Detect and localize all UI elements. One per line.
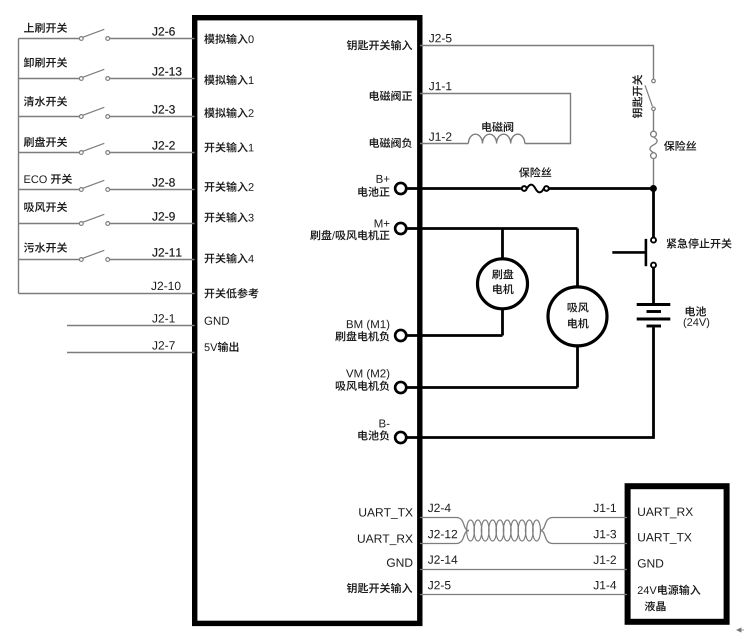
switch S2 blade — [83, 69, 105, 77]
pin label J1-4 (LCD) — [593, 581, 616, 589]
switch S4 wire right segment to J2-2 — [110, 152, 195, 154]
wire VM — [406, 386, 577, 389]
terminal B+ — [395, 183, 406, 194]
switch S5 blade — [83, 180, 105, 188]
wire J2-7 5V — [67, 352, 195, 354]
label 卸刷开关 — [24, 57, 67, 67]
junction node B+ column — [650, 185, 657, 192]
switch S3 blade — [83, 107, 105, 115]
pin label J2-11 — [152, 248, 181, 256]
battery BT1 plates — [637, 303, 671, 306]
switch S2 contact circles — [79, 77, 83, 81]
pin label J2-13 — [152, 67, 181, 75]
switch S5 wire right segment to J2-8 — [110, 189, 195, 191]
pin name 开关输入2 — [205, 181, 254, 191]
left common bus wire (switch low reference) — [18, 39, 20, 294]
label 液晶 — [645, 601, 666, 611]
pin label J2-8 — [152, 178, 175, 186]
terminal B- and wire to battery negative — [395, 432, 406, 443]
switch S6 wire right segment to J2-9 — [110, 223, 195, 225]
fuse F1 保险丝 on B+ — [522, 186, 527, 191]
pin name 模拟输入0 — [204, 34, 253, 44]
wire BM — [406, 334, 502, 337]
LCD pin 24V电源输入 — [638, 585, 701, 595]
pin name 模拟输入2 — [204, 108, 253, 118]
emergency stop switch SW-ES — [651, 238, 656, 243]
pin label J2-2 — [152, 141, 175, 149]
wire M+ rail — [406, 227, 577, 230]
pin name M+ — [375, 219, 390, 227]
wire fuse F2 to B+ node — [653, 159, 655, 186]
label 清水开关 — [24, 96, 67, 106]
label 刷盘开关 — [24, 137, 67, 147]
label 电机 (M2) — [568, 318, 589, 328]
switch S1 contact circles — [79, 37, 83, 41]
terminal BM (M1) — [395, 330, 406, 341]
switch S4 J2-2 wire left segment — [19, 152, 80, 154]
pin name B+ — [377, 175, 390, 183]
switch S7 contact circles — [79, 258, 83, 262]
pin name 电磁阀正 — [370, 91, 412, 101]
pin name 5V输出 — [204, 342, 238, 352]
pin name BM (M1) — [347, 320, 389, 331]
pin label J2-7 — [152, 341, 175, 349]
pin label J2-6 — [152, 27, 175, 35]
wire J2-10 switch low reference — [19, 293, 195, 295]
switch S5 J2-8 wire left segment — [19, 189, 80, 191]
label 保险丝 (fuse F1) — [519, 167, 551, 177]
wire GND J2-14 to J1-2 — [420, 569, 627, 571]
switch S5 contact circles — [79, 188, 83, 192]
wire vacuum motor to VM — [576, 346, 579, 388]
pin label J1-3 (LCD) — [593, 530, 616, 538]
wire UART_RX J2-12 to J1-3 — [420, 531, 469, 544]
pin name 电池负 — [358, 430, 389, 440]
wire UART_TX J2-4 to J1-1 — [420, 518, 469, 531]
switch S6 contact circles — [79, 222, 83, 226]
switch S1 wire right segment to J2-6 — [110, 38, 195, 40]
label (24V) — [684, 318, 710, 328]
pin name 钥匙开关输入 — [347, 40, 412, 50]
pin label J2-14 — [428, 555, 457, 563]
pin label J1-2 (LCD) — [593, 556, 616, 564]
terminal VM (M2) — [395, 382, 406, 393]
pin name 刷盘电机负 — [335, 331, 389, 341]
controller U1 box — [195, 18, 420, 624]
pin name VM (M2) — [346, 369, 389, 380]
solenoid coil L1 电磁阀 — [468, 134, 524, 143]
pin name 开关输入3 — [205, 212, 254, 222]
pin name 开关输入4 — [205, 253, 254, 263]
wire brush motor to BM — [501, 309, 504, 336]
label 上刷开关 — [24, 23, 67, 33]
switch S4 contact circles — [79, 151, 83, 155]
label 电机 (M1) — [493, 284, 514, 294]
pin label J2-9 — [152, 212, 175, 220]
wire J1-2 solenoid negative — [420, 143, 468, 145]
LCD display U2 box — [628, 486, 727, 622]
pin name 吸风电机负 — [336, 381, 390, 391]
terminal M+ — [395, 223, 406, 234]
label 电池 — [686, 306, 706, 316]
key switch blade — [645, 85, 652, 106]
pin name 刷盘/吸风电机正 — [310, 230, 389, 240]
brush motor M1 刷盘电机 — [478, 259, 528, 309]
wire key switch to fuse F2 — [653, 111, 655, 131]
switch S6 J2-9 wire left segment — [19, 223, 80, 225]
pin name UART_RX — [358, 534, 413, 545]
pin label J2-5 — [428, 581, 451, 589]
label 吸风开关 — [24, 202, 67, 212]
wire M+ to vacuum motor — [576, 229, 579, 288]
pin label J2-1 — [152, 314, 175, 322]
pin name 钥匙开关输入(bottom) — [347, 583, 412, 593]
pin name GND — [205, 317, 229, 325]
pin name 模拟输入1 — [204, 75, 253, 85]
switch S7 J2-11 wire left segment — [19, 259, 80, 261]
pin name B- — [379, 419, 389, 427]
twisted pair loops — [467, 520, 475, 541]
key switch SW-KEY contacts — [652, 79, 656, 83]
small cursor mark bottom right — [737, 628, 744, 632]
label 吸风 — [568, 303, 589, 313]
pin name 开关输入1 — [205, 142, 254, 152]
pin label J2-5 — [429, 34, 452, 42]
pin name UART_TX — [359, 508, 412, 519]
switch S1 blade — [83, 29, 105, 37]
switch S4 blade — [83, 143, 105, 151]
fuse F2 (vertical) — [651, 131, 657, 137]
pin label J1-1 — [429, 82, 452, 90]
pin label J1-1 (LCD) — [593, 504, 616, 512]
wire M+ to brush motor — [501, 229, 504, 260]
label 紧急停止开关 — [667, 238, 732, 248]
label 保险丝 (vertical fuse) — [664, 141, 696, 151]
switch S1 J2-6 wire left segment — [19, 38, 80, 40]
label 电磁阀 — [482, 122, 513, 132]
switch S3 J2-3 wire left segment — [19, 116, 80, 118]
LCD pin UART_RX — [638, 508, 693, 519]
wire J2-5 key switch input — [420, 46, 654, 80]
pin label J2-3 — [152, 105, 175, 113]
switch S3 wire right segment to J2-3 — [110, 116, 195, 118]
pin label J2-12 — [428, 530, 457, 538]
label 污水开关 — [24, 242, 67, 252]
switch S6 blade — [83, 214, 105, 222]
LCD pin UART_TX — [638, 533, 691, 544]
wire J1-1 solenoid positive — [420, 94, 571, 144]
switch S2 wire right segment to J2-13 — [110, 78, 195, 80]
pin label J1-2 — [429, 132, 452, 140]
pin label J2-10 — [151, 282, 180, 290]
wire node to emergency stop — [652, 189, 655, 238]
vacuum motor M2 吸风电机 — [548, 287, 607, 346]
wire B+ to fuse F1 — [406, 187, 521, 190]
switch S2 J2-13 wire left segment — [19, 78, 80, 80]
wire fuse F1 to node — [549, 187, 653, 190]
pin label J2-4 — [428, 504, 451, 512]
switch S7 blade — [83, 250, 105, 258]
label 刷盘 — [492, 269, 513, 279]
switch S7 wire right segment to J2-11 — [110, 259, 195, 261]
label 钥匙开关 (rotated) — [632, 75, 642, 118]
wire emergency stop to battery — [652, 268, 655, 304]
pin name GND — [387, 558, 412, 566]
label ECO 开关 — [24, 174, 72, 184]
pin name 电池正 — [358, 187, 389, 197]
pin name 开关低参考 — [205, 288, 259, 298]
pin name 电磁阀负 — [370, 138, 412, 148]
wire key J2-5 to J1-4 — [420, 594, 627, 596]
LCD pin GND — [638, 559, 663, 567]
wire J2-1 GND — [67, 325, 195, 327]
switch S3 contact circles — [79, 115, 83, 119]
